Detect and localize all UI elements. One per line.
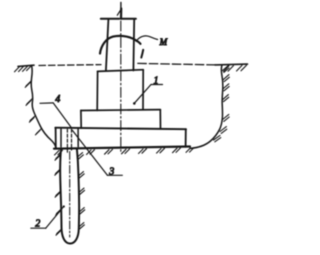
svg-text:4: 4 — [55, 94, 60, 105]
svg-text:1: 1 — [154, 76, 159, 87]
svg-text:M: M — [159, 37, 168, 47]
svg-text:3: 3 — [108, 166, 114, 177]
svg-text:2: 2 — [35, 219, 40, 230]
